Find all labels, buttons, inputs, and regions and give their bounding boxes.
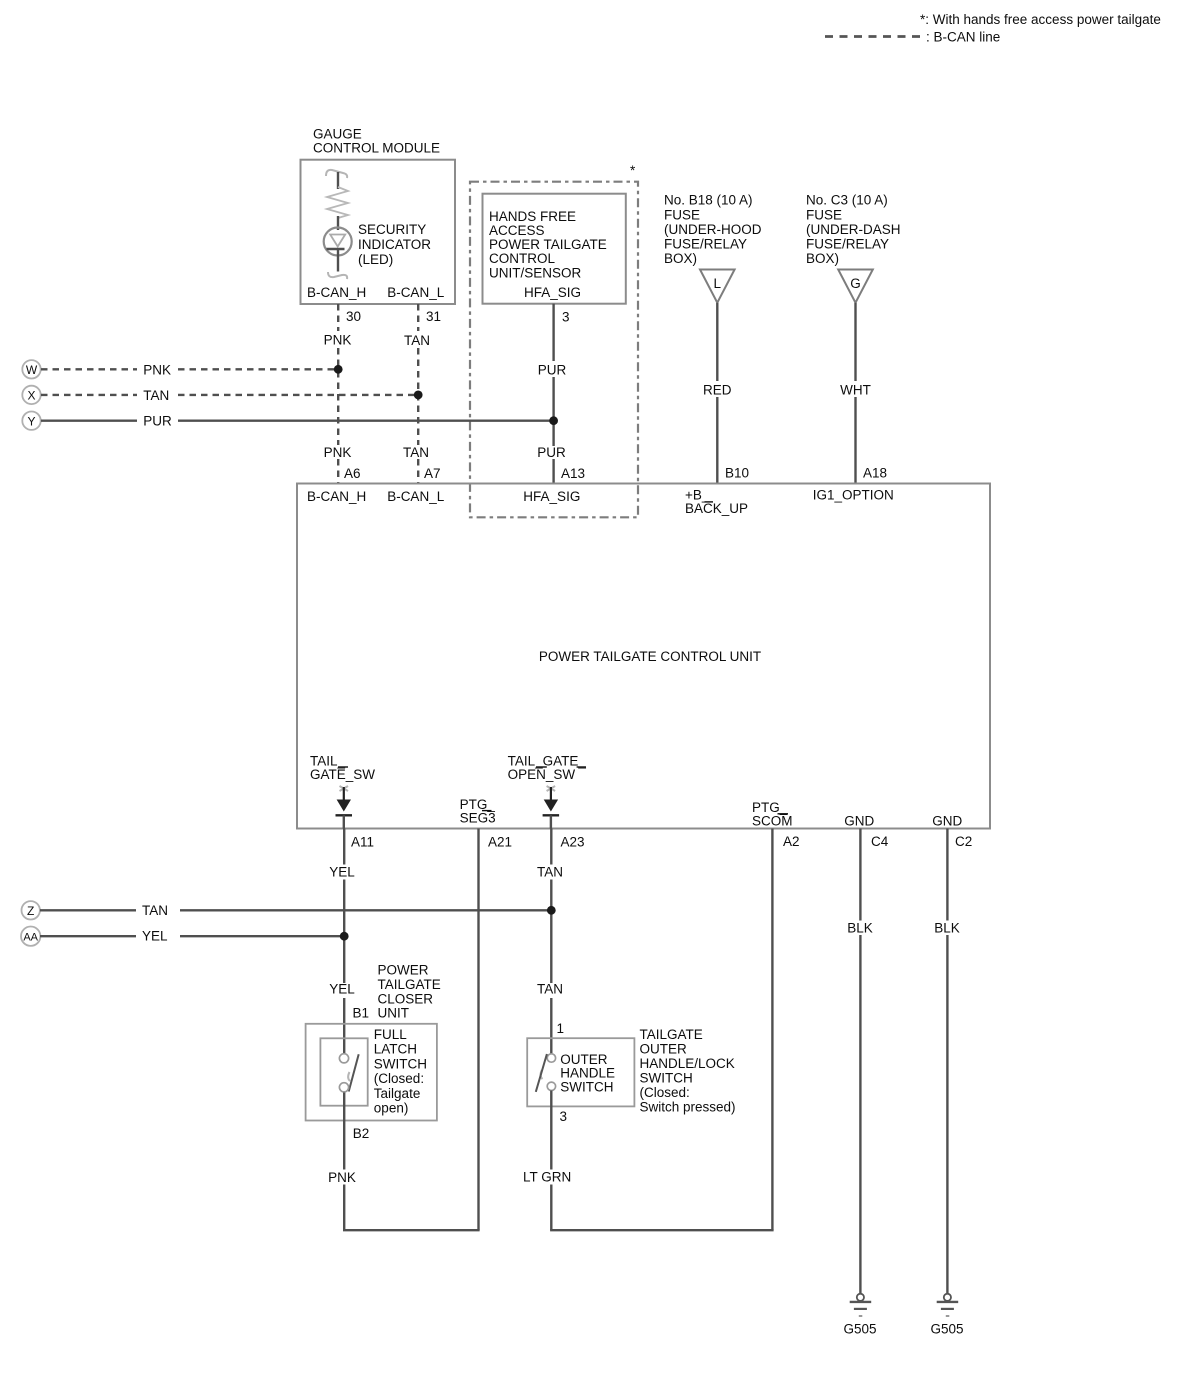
- svg-text:GATE_SW: GATE_SW: [310, 767, 375, 782]
- svg-text:A2: A2: [783, 834, 800, 849]
- svg-text:PNK: PNK: [143, 362, 171, 377]
- svg-text:GND: GND: [932, 813, 962, 828]
- wire PNK B-CAN_H dashed vertical: [337, 304, 339, 483]
- svg-text:LT GRN: LT GRN: [523, 1170, 571, 1185]
- svg-text:: B-CAN line: : B-CAN line: [926, 30, 1000, 45]
- svg-text:L: L: [714, 276, 722, 291]
- wire bottom loop left: [343, 1229, 480, 1231]
- wire W PNK dashed horizontal: [41, 368, 338, 370]
- svg-text:A21: A21: [488, 835, 512, 850]
- junction Z-TAN: [547, 906, 556, 915]
- svg-text:SWITCH: SWITCH: [374, 1056, 427, 1071]
- outer handle switch S2: [536, 1054, 556, 1092]
- fuse C3 symbol (triangle G): [838, 270, 873, 303]
- svg-text:OPEN_SW: OPEN_SW: [508, 767, 576, 782]
- full latch switch text: [374, 1027, 427, 1116]
- svg-text:G505: G505: [930, 1322, 963, 1337]
- svg-text:WHT: WHT: [840, 382, 871, 397]
- svg-text:30: 30: [346, 309, 361, 324]
- svg-text:CONTROL MODULE: CONTROL MODULE: [313, 141, 440, 156]
- wire TAN A23 vertical: [550, 829, 552, 1055]
- wire WHT vertical: [854, 303, 856, 483]
- svg-text:FUSE: FUSE: [664, 207, 700, 222]
- svg-text:B-CAN_L: B-CAN_L: [387, 489, 445, 504]
- svg-text:PNK: PNK: [324, 333, 352, 348]
- wire LT GRN vertical: [550, 1091, 552, 1231]
- tailgate outer handle/lock switch label: [640, 1027, 736, 1115]
- svg-text:No. B18 (10 A): No. B18 (10 A): [664, 193, 753, 208]
- wire PUR vertical: [552, 304, 554, 483]
- pin PTG_SEG3 label: [460, 797, 496, 825]
- svg-text:HANDS FREE: HANDS FREE: [489, 209, 576, 224]
- fuse No. B18 label: [664, 193, 762, 266]
- svg-text:X: X: [27, 389, 35, 403]
- svg-text:LATCH: LATCH: [374, 1042, 417, 1057]
- internal arrow TAIL_GATE_SW: [336, 786, 353, 829]
- svg-text:(Closed:: (Closed:: [640, 1085, 690, 1100]
- svg-text:TAN: TAN: [142, 903, 168, 918]
- hands free access control unit box: [483, 194, 626, 304]
- hands free access dash-dot boundary box: [470, 182, 638, 518]
- fuse B18 symbol (triangle L): [700, 270, 735, 303]
- wire bottom loop right: [550, 1229, 774, 1231]
- svg-text:(UNDER-DASH: (UNDER-DASH: [806, 222, 901, 237]
- svg-text:*: *: [630, 163, 636, 178]
- svg-text:INDICATOR: INDICATOR: [358, 237, 431, 252]
- svg-text:GND: GND: [844, 813, 874, 828]
- svg-text:TAN: TAN: [537, 982, 563, 997]
- svg-text:C4: C4: [871, 834, 889, 849]
- svg-text:TAILGATE: TAILGATE: [640, 1027, 703, 1042]
- svg-text:RED: RED: [703, 382, 732, 397]
- svg-text:UNIT/SENSOR: UNIT/SENSOR: [489, 266, 582, 281]
- svg-text:B10: B10: [725, 466, 749, 481]
- svg-text:A7: A7: [424, 466, 441, 481]
- connector AA: [21, 927, 40, 946]
- svg-text:B1: B1: [353, 1006, 370, 1021]
- svg-text:31: 31: [426, 309, 441, 324]
- svg-text:FUSE/RELAY: FUSE/RELAY: [664, 237, 747, 252]
- wire RED vertical: [716, 303, 718, 483]
- svg-text:TAILGATE: TAILGATE: [378, 977, 441, 992]
- svg-text:BACK_UP: BACK_UP: [685, 501, 748, 516]
- outer handle switch text: [560, 1052, 615, 1094]
- wire AA YEL horizontal: [40, 935, 344, 937]
- svg-text:FUSE/RELAY: FUSE/RELAY: [806, 237, 889, 252]
- svg-text:PUR: PUR: [537, 445, 566, 460]
- svg-text:CONTROL: CONTROL: [489, 251, 555, 266]
- svg-text:UNIT: UNIT: [378, 1006, 410, 1021]
- svg-text:3: 3: [562, 310, 570, 325]
- power tailgate closer unit box: [306, 1024, 437, 1121]
- svg-text:YEL: YEL: [329, 865, 355, 880]
- wire PNK B2 vertical: [343, 1093, 345, 1231]
- svg-text:B-CAN_H: B-CAN_H: [307, 285, 366, 300]
- svg-text:No. C3 (10 A): No. C3 (10 A): [806, 193, 888, 208]
- svg-text:BLK: BLK: [934, 921, 960, 936]
- svg-text:3: 3: [560, 1109, 568, 1124]
- power tailgate control unit box U1: [297, 484, 990, 829]
- svg-text:B-CAN_L: B-CAN_L: [387, 285, 445, 300]
- svg-text:POWER: POWER: [378, 962, 429, 977]
- ground G505 (C4): [850, 1294, 872, 1316]
- legend B-CAN line sample wire: [825, 35, 921, 38]
- connector W: [22, 360, 40, 378]
- svg-text:A13: A13: [561, 466, 585, 481]
- wire A2 vertical: [771, 829, 773, 1231]
- svg-text:IG1_OPTION: IG1_OPTION: [813, 488, 894, 503]
- svg-text:G505: G505: [843, 1322, 876, 1337]
- svg-text:W: W: [26, 363, 38, 377]
- tailgate outer handle switch box: [527, 1038, 634, 1106]
- ground G505 (C2): [937, 1294, 959, 1316]
- wire A21 vertical: [477, 829, 479, 1231]
- svg-text:A6: A6: [344, 466, 361, 481]
- svg-text:ACCESS: ACCESS: [489, 223, 545, 238]
- connector X: [22, 386, 40, 404]
- wire Y PUR solid horizontal: [41, 420, 554, 422]
- svg-text:PNK: PNK: [328, 1170, 356, 1185]
- junction W-PNK: [334, 365, 343, 374]
- wire TAN B-CAN_L dashed vertical: [417, 304, 419, 483]
- svg-text:FULL: FULL: [374, 1027, 408, 1042]
- svg-text:POWER TAILGATE CONTROL UNIT: POWER TAILGATE CONTROL UNIT: [539, 649, 761, 664]
- svg-text:YEL: YEL: [329, 982, 355, 997]
- svg-text:*: With hands free access powe: *: With hands free access power tailgate: [920, 12, 1161, 27]
- svg-text:AA: AA: [23, 931, 38, 943]
- gauge control module box: [301, 160, 456, 304]
- connector Z: [22, 901, 40, 919]
- pin PTG_SCOM label: [752, 800, 793, 828]
- svg-text:HFA_SIG: HFA_SIG: [523, 489, 580, 504]
- svg-text:B-CAN_H: B-CAN_H: [307, 489, 366, 504]
- full latch switch box: [320, 1038, 367, 1105]
- svg-text:PUR: PUR: [143, 414, 172, 429]
- wire BLK C4 vertical: [859, 829, 861, 1294]
- pin +B_BACK_UP of control unit: [685, 488, 748, 517]
- svg-text:TAN: TAN: [403, 445, 429, 460]
- svg-text:SWITCH: SWITCH: [640, 1071, 693, 1086]
- connector Y: [22, 412, 40, 430]
- svg-text:TAN: TAN: [537, 865, 563, 880]
- junction AA-YEL: [340, 932, 349, 941]
- svg-text:HFA_SIG: HFA_SIG: [524, 285, 581, 300]
- svg-text:Y: Y: [27, 414, 35, 428]
- junction Y-PUR: [549, 416, 558, 425]
- svg-text:G: G: [850, 276, 861, 291]
- svg-text:BOX): BOX): [664, 251, 697, 266]
- full latch switch S1: [339, 1054, 358, 1092]
- svg-text:open): open): [374, 1101, 409, 1116]
- wire BLK C2 vertical: [946, 829, 948, 1294]
- svg-text:A18: A18: [863, 466, 887, 481]
- svg-text:POWER TAILGATE: POWER TAILGATE: [489, 237, 607, 252]
- power tailgate closer unit label: [378, 962, 441, 1020]
- svg-text:Switch pressed): Switch pressed): [640, 1100, 736, 1115]
- fuse No. C3 label: [806, 193, 901, 266]
- svg-text:B2: B2: [353, 1126, 370, 1141]
- svg-text:YEL: YEL: [142, 929, 168, 944]
- svg-text:BLK: BLK: [847, 921, 873, 936]
- svg-text:PUR: PUR: [538, 362, 567, 377]
- pin TAIL_GATE_SW label: [310, 754, 375, 783]
- svg-text:A23: A23: [561, 835, 585, 850]
- svg-text:Z: Z: [27, 904, 34, 918]
- svg-text:(Closed:: (Closed:: [374, 1071, 424, 1086]
- LED D1 security indicator: [324, 216, 352, 279]
- wire YEL A11 vertical: [343, 829, 345, 1054]
- svg-text:1: 1: [557, 1021, 565, 1036]
- svg-text:TAN: TAN: [143, 388, 169, 403]
- svg-text:FUSE: FUSE: [806, 207, 842, 222]
- internal arrow TAIL_GATE_OPEN_SW: [543, 786, 560, 829]
- svg-text:Tailgate: Tailgate: [374, 1086, 421, 1101]
- svg-text:SECURITY: SECURITY: [358, 222, 426, 237]
- svg-text:GAUGE: GAUGE: [313, 127, 362, 142]
- svg-text:BOX): BOX): [806, 251, 839, 266]
- junction X-TAN: [414, 391, 423, 400]
- svg-text:CLOSER: CLOSER: [378, 991, 434, 1006]
- svg-text:HANDLE/LOCK: HANDLE/LOCK: [640, 1056, 735, 1071]
- svg-text:TAN: TAN: [404, 333, 430, 348]
- svg-text:(LED): (LED): [358, 252, 393, 267]
- pin TAIL_GATE_OPEN_SW label: [508, 754, 587, 783]
- svg-text:SEG3: SEG3: [460, 810, 496, 825]
- svg-text:SWITCH: SWITCH: [560, 1079, 613, 1094]
- wire Z TAN horizontal: [40, 909, 551, 911]
- wire X TAN dashed horizontal: [41, 394, 418, 396]
- svg-text:OUTER: OUTER: [640, 1042, 688, 1057]
- resistor (security indicator, light): [326, 170, 348, 218]
- svg-text:(UNDER-HOOD: (UNDER-HOOD: [664, 222, 762, 237]
- svg-text:C2: C2: [955, 834, 972, 849]
- svg-text:HANDLE: HANDLE: [560, 1066, 615, 1081]
- svg-text:SCOM: SCOM: [752, 813, 793, 828]
- svg-text:A11: A11: [351, 835, 374, 850]
- svg-text:PNK: PNK: [324, 445, 352, 460]
